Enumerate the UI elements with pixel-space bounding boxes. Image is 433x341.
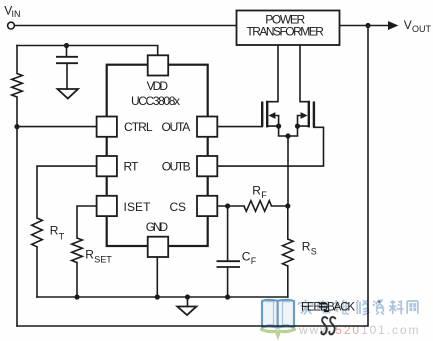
- svg-text:F: F: [261, 190, 267, 200]
- svg-text:CS: CS: [170, 200, 187, 214]
- svg-text:CTRL: CTRL: [124, 120, 153, 134]
- svg-text:V: V: [404, 18, 412, 32]
- svg-text:IN: IN: [12, 9, 21, 19]
- svg-text:OUTA: OUTA: [162, 120, 191, 134]
- svg-text:C: C: [242, 249, 251, 263]
- svg-text:VDD: VDD: [147, 79, 169, 93]
- svg-text:www.520101.com: www.520101.com: [298, 323, 420, 337]
- svg-text:FEEDBACK: FEEDBACK: [301, 302, 355, 314]
- svg-text:R: R: [302, 239, 311, 253]
- svg-text:R: R: [252, 184, 261, 198]
- svg-text:RT: RT: [124, 160, 140, 174]
- svg-text:R: R: [50, 224, 59, 238]
- svg-text:TRANSFORMER: TRANSFORMER: [246, 25, 324, 39]
- svg-text:OUT: OUT: [412, 24, 432, 34]
- svg-text:F: F: [251, 256, 257, 266]
- svg-text:S: S: [311, 246, 317, 256]
- svg-text:OUTB: OUTB: [162, 160, 191, 174]
- svg-text:ISET: ISET: [124, 200, 152, 214]
- svg-text:SET: SET: [94, 254, 112, 264]
- svg-text:GND: GND: [146, 220, 169, 234]
- svg-text:R: R: [85, 247, 94, 261]
- svg-text:T: T: [59, 232, 65, 242]
- svg-text:UCC3808x: UCC3808x: [131, 94, 180, 108]
